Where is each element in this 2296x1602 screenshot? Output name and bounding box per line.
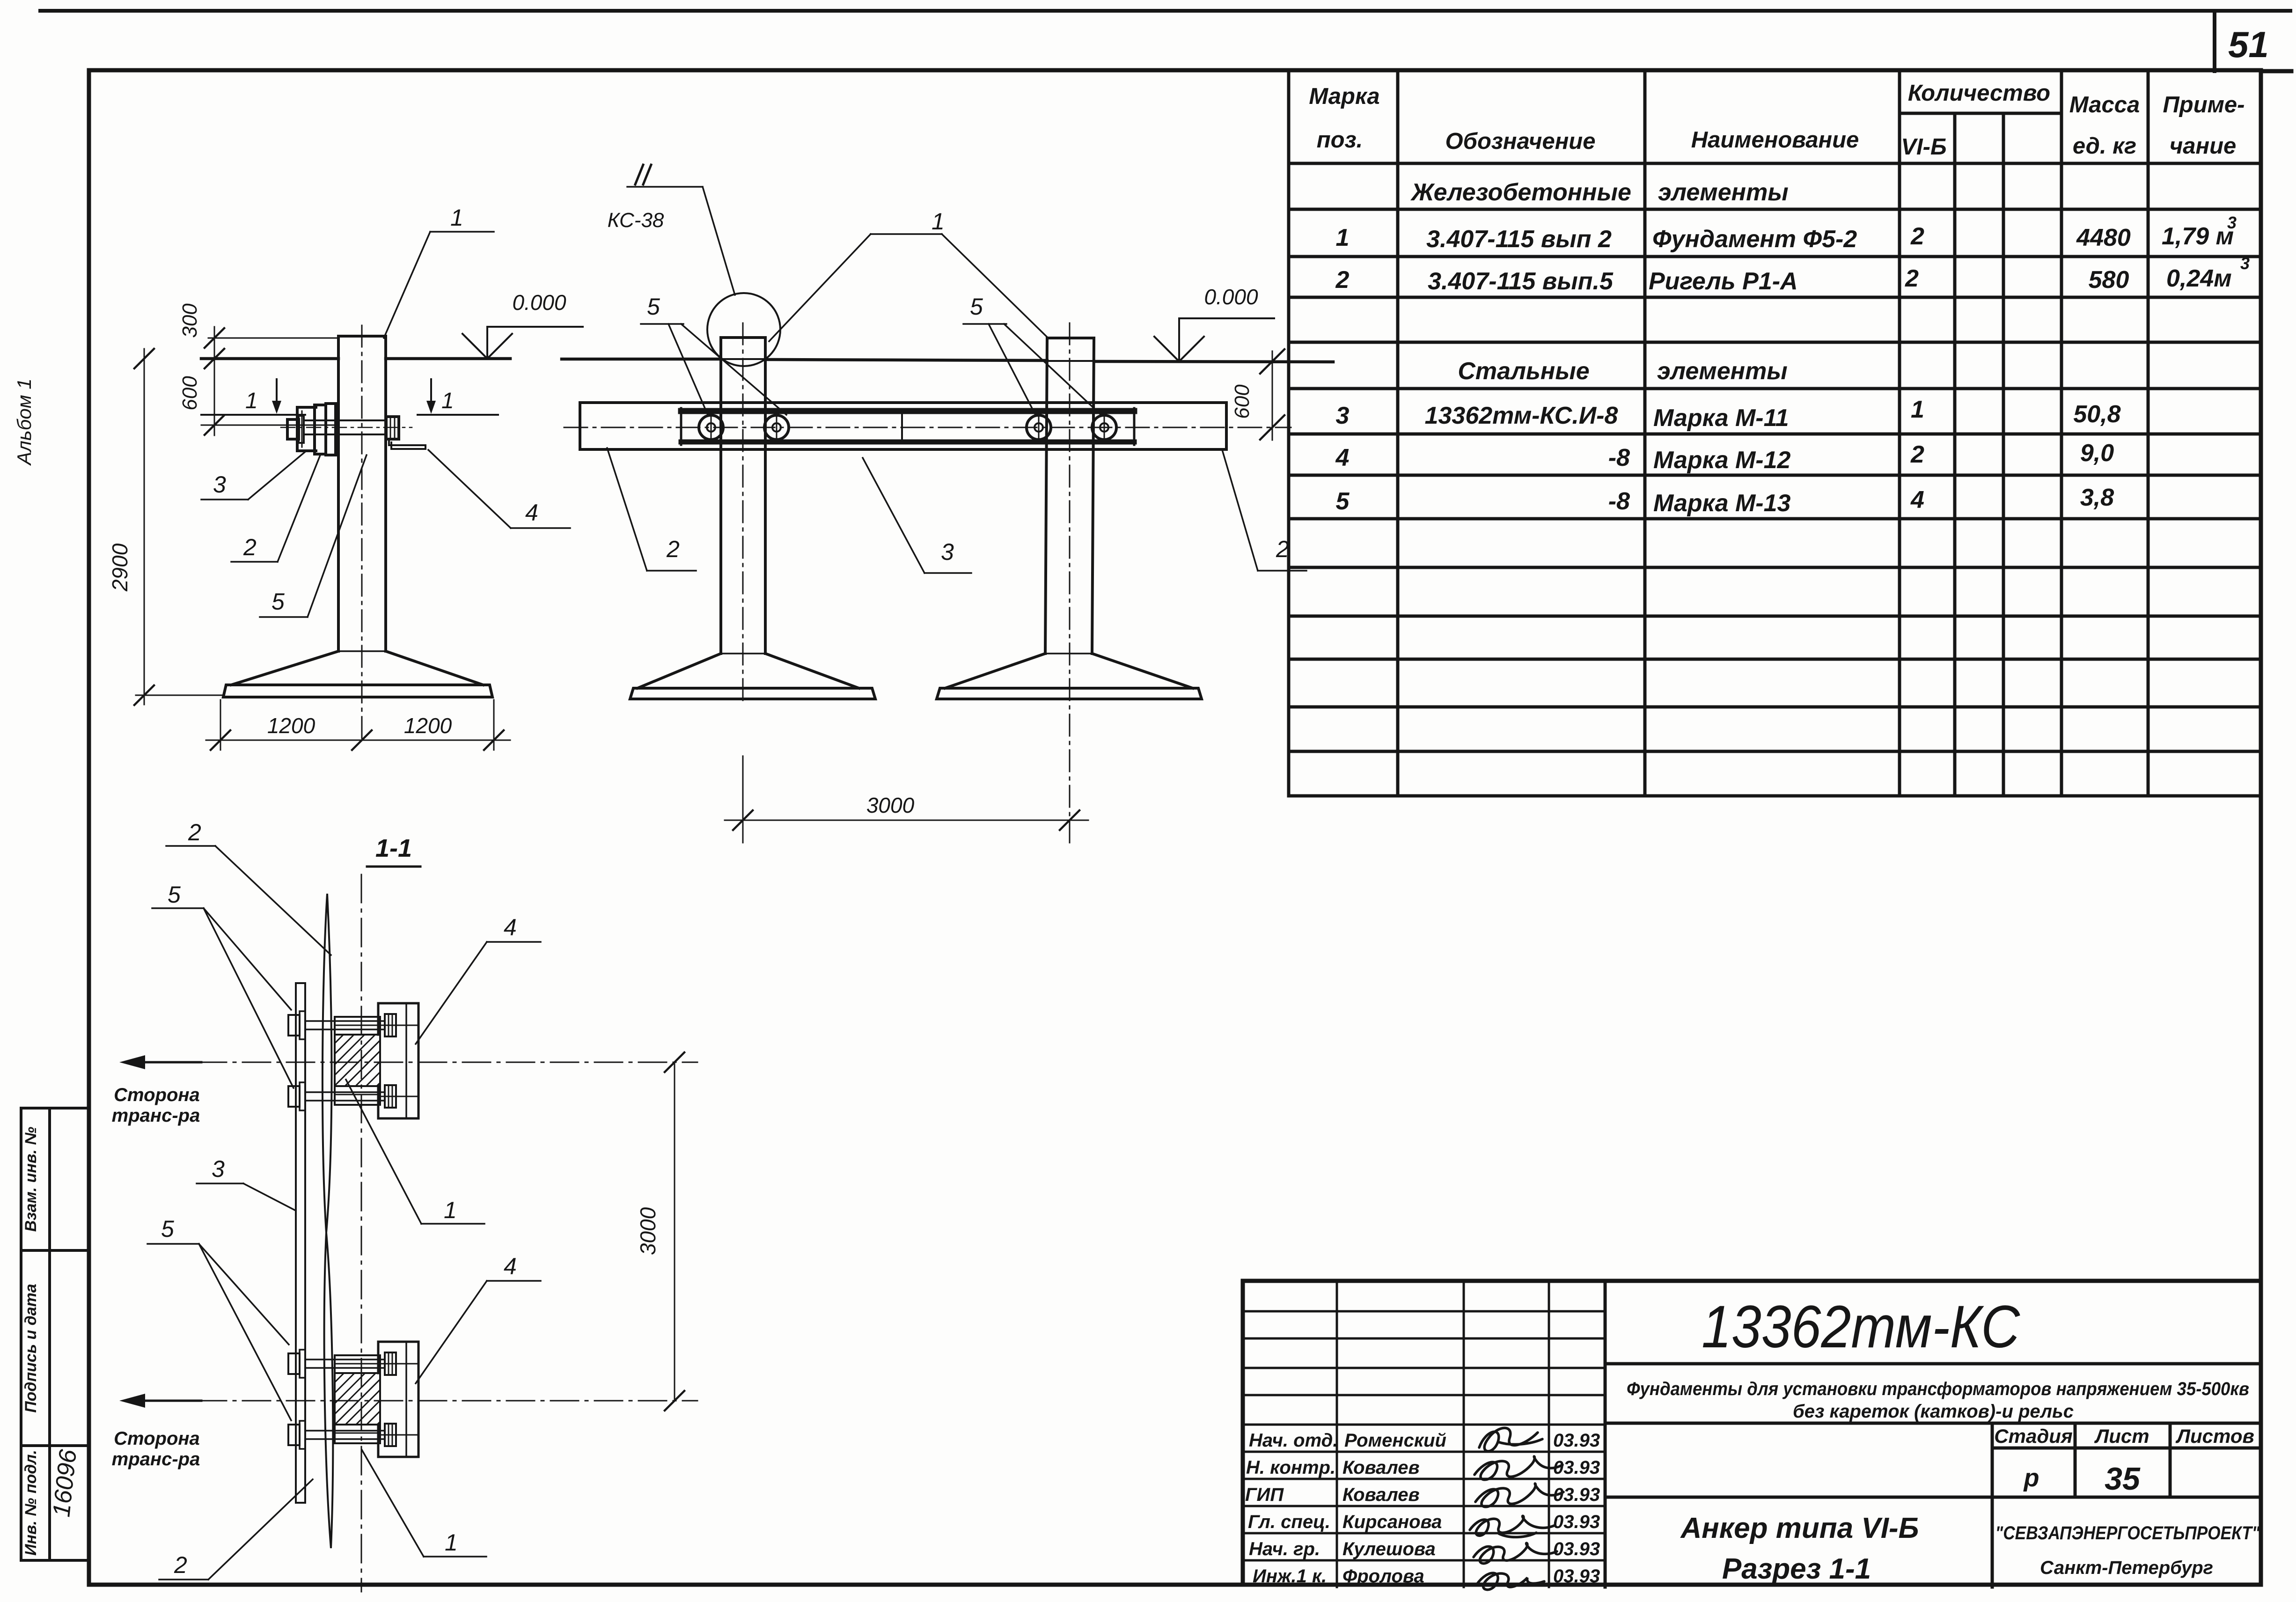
bolt 3 — [1027, 415, 1051, 440]
bolt 2 — [764, 415, 789, 440]
svg-text:ГИП: ГИП — [1245, 1484, 1284, 1505]
svg-text:0,24м: 0,24м — [2166, 265, 2232, 292]
svg-text:Н. контр.: Н. контр. — [1246, 1457, 1335, 1478]
svg-text:580: 580 — [2089, 266, 2129, 294]
svg-text:600: 600 — [1231, 384, 1254, 419]
rigel plate edge (pos2 sliver) — [323, 894, 332, 1233]
svg-text:поз.: поз. — [1317, 127, 1363, 153]
beam (rigel P1-A) outer — [580, 403, 1226, 449]
svg-text:VI-Б: VI-Б — [1901, 134, 1946, 160]
svg-text:Ковалев: Ковалев — [1342, 1457, 1420, 1478]
svg-text:Инв. № подл.: Инв. № подл. — [22, 1450, 40, 1556]
dim line 2900 — [144, 349, 145, 705]
svg-text:2: 2 — [1910, 223, 1924, 250]
svg-text:Инж.1 к.: Инж.1 к. — [1253, 1566, 1327, 1587]
svg-text:600: 600 — [178, 376, 201, 411]
svg-text:2: 2 — [1905, 265, 1919, 292]
bolt nut right — [386, 417, 399, 439]
svg-text:2: 2 — [243, 534, 257, 560]
bolt upper-top — [288, 1015, 300, 1036]
title block left labels — [1245, 1430, 1600, 1587]
column cut top plate lower — [335, 1355, 380, 1373]
svg-text:13362тм-КС.И-8: 13362тм-КС.И-8 — [1425, 402, 1618, 429]
svg-text:4: 4 — [504, 1253, 517, 1279]
svg-text:чание: чание — [2170, 133, 2237, 159]
dim 3000 between columns — [742, 756, 744, 843]
bolt lower-bottom — [288, 1425, 300, 1445]
svg-text:Ригель Р1-А: Ригель Р1-А — [1649, 268, 1798, 295]
svg-text:3.407-115 вып 2: 3.407-115 вып 2 — [1426, 226, 1612, 253]
svg-text:2: 2 — [1335, 266, 1350, 294]
svg-text:р: р — [2023, 1464, 2039, 1492]
bracket M-12 (pos4) upper — [378, 1003, 418, 1118]
svg-text:3: 3 — [2227, 213, 2237, 232]
svg-text:Анкер типа VI-Б: Анкер типа VI-Б — [1680, 1512, 1919, 1544]
sheet top edge line — [40, 9, 2290, 13]
label II — [635, 165, 643, 184]
svg-text:3000: 3000 — [866, 793, 915, 817]
detail circle II — [707, 293, 780, 366]
svg-text:Марка: Марка — [1309, 84, 1379, 109]
svg-text:03.93: 03.93 — [1553, 1430, 1600, 1451]
title block right grid — [1605, 1281, 2261, 1587]
frame top extension to sheet right — [2261, 69, 2291, 73]
svg-text:элементы: элементы — [1657, 358, 1788, 385]
ground line left view — [201, 357, 338, 360]
column cut bottom plate — [335, 1086, 380, 1105]
svg-text:03.93: 03.93 — [1553, 1457, 1600, 1478]
svg-text:35: 35 — [2105, 1461, 2141, 1497]
svg-text:Листов: Листов — [2175, 1425, 2254, 1447]
bolt axis — [281, 427, 412, 428]
svg-text:1: 1 — [245, 389, 258, 413]
svg-text:3.407-115 вып.5: 3.407-115 вып.5 — [1428, 268, 1614, 295]
table row texts — [1335, 179, 2250, 517]
bolt shaft — [304, 419, 386, 421]
svg-text:транс-ра: транс-ра — [112, 1105, 200, 1126]
svg-text:5: 5 — [271, 588, 285, 615]
dim 3000 vertical — [674, 1062, 675, 1401]
svg-text:4: 4 — [1910, 486, 1924, 514]
svg-text:2: 2 — [1910, 441, 1924, 468]
svg-text:1: 1 — [1911, 396, 1924, 423]
angle bracket pos4 — [389, 440, 425, 449]
svg-text:Гл. спец.: Гл. спец. — [1248, 1512, 1330, 1532]
svg-text:Марка М-12: Марка М-12 — [1653, 447, 1791, 474]
svg-text:3: 3 — [1336, 402, 1350, 429]
svg-text:без кареток (катков)-и рельс: без кареток (катков)-и рельс — [1793, 1401, 2074, 1422]
bolt 1 — [699, 413, 1116, 442]
title block left grid — [1243, 1281, 1605, 1587]
svg-text:03.93: 03.93 — [1553, 1539, 1600, 1559]
svg-text:3: 3 — [213, 471, 226, 498]
strip joint line — [901, 409, 903, 442]
table header texts — [1309, 81, 2245, 160]
ground line middle view — [562, 358, 721, 361]
svg-text:3: 3 — [212, 1156, 225, 1182]
svg-text:1: 1 — [450, 205, 463, 231]
right foundation column — [1045, 338, 1094, 654]
svg-text:Подпись и дата: Подпись и дата — [22, 1284, 40, 1413]
column centerlines — [742, 323, 744, 705]
bolt upper-bottom — [288, 1086, 300, 1107]
bolt lower-top — [288, 1353, 300, 1374]
svg-text:03.93: 03.93 — [1553, 1512, 1600, 1532]
svg-text:Масса: Масса — [2069, 92, 2140, 118]
svg-text:Приме-: Приме- — [2163, 92, 2245, 118]
foundation base plate — [223, 685, 492, 697]
svg-text:Стальные: Стальные — [1458, 358, 1589, 385]
svg-text:ед. кг: ед. кг — [2073, 133, 2136, 159]
svg-text:1: 1 — [441, 389, 454, 413]
svg-text:Нач. отд.: Нач. отд. — [1249, 1430, 1338, 1451]
svg-text:Нач. гр.: Нач. гр. — [1249, 1539, 1320, 1559]
description lines — [1627, 1379, 2260, 1585]
dim line 300/600 — [214, 327, 215, 435]
svg-text:4: 4 — [525, 500, 538, 526]
transformer-side axis arrow lower — [125, 1400, 201, 1402]
svg-text:3000: 3000 — [636, 1207, 660, 1255]
svg-text:Сторона: Сторона — [114, 1428, 200, 1449]
column centerline — [361, 325, 363, 741]
svg-text:Альбом 1: Альбом 1 — [13, 378, 35, 466]
svg-text:Марка М-13: Марка М-13 — [1653, 490, 1791, 517]
svg-text:Фундамент Ф5-2: Фундамент Ф5-2 — [1652, 226, 1857, 253]
svg-text:50,8: 50,8 — [2073, 401, 2120, 428]
svg-text:Сторона: Сторона — [114, 1085, 200, 1105]
svg-text:Взам. инв. №: Взам. инв. № — [22, 1127, 40, 1232]
dim line 1200+1200 — [220, 700, 221, 750]
svg-text:1-1: 1-1 — [375, 834, 412, 862]
svg-text:1: 1 — [445, 1529, 458, 1556]
bolt head — [287, 419, 299, 439]
svg-text:Наименование: Наименование — [1691, 127, 1859, 153]
beam centerline — [564, 427, 1291, 428]
svg-text:КС-38: КС-38 — [608, 209, 664, 232]
foundation column F5-2 — [223, 336, 492, 697]
section cut mark 1 left — [201, 414, 305, 416]
svg-text:"СЕВЗАПЭНЕРГОСЕТЬПРОЕКТ": "СЕВЗАПЭНЕРГОСЕТЬПРОЕКТ" — [1995, 1523, 2260, 1543]
elevation mark 0.000 middle view — [1179, 317, 1274, 319]
extension lines for 300/600 dims — [208, 338, 338, 339]
bolted joint: channel bracket — [287, 404, 425, 455]
column cut top plate — [335, 1017, 380, 1035]
svg-text:Кулешова: Кулешова — [1342, 1539, 1436, 1559]
bracket M-12 (pos4) lower — [378, 1342, 418, 1457]
svg-text:03.93: 03.93 — [1553, 1566, 1600, 1587]
text Сторона транс-ра upper — [112, 1085, 200, 1470]
section cut mark 1 right — [418, 414, 498, 416]
svg-text:Железобетонные: Железобетонные — [1410, 179, 1631, 206]
svg-text:Санкт-Петербург: Санкт-Петербург — [2040, 1558, 2213, 1578]
bolt 4 — [1092, 415, 1116, 440]
column cut hatched — [335, 1035, 380, 1086]
column cut hatched lower — [335, 1373, 380, 1425]
signatures — [1470, 1428, 1563, 1589]
column cut bottom plate lower — [335, 1425, 380, 1443]
svg-text:0.000: 0.000 — [1204, 285, 1258, 309]
svg-text:5: 5 — [1336, 488, 1350, 515]
svg-text:Марка М-11: Марка М-11 — [1653, 404, 1789, 432]
svg-text:4: 4 — [504, 914, 517, 941]
svg-text:5: 5 — [647, 294, 660, 320]
svg-text:5: 5 — [168, 882, 181, 908]
steel strip M-11 on beam — [681, 408, 1134, 414]
svg-text:Ковалев: Ковалев — [1342, 1484, 1420, 1505]
vertical centerline — [361, 874, 362, 1592]
page number 51 box divider — [2213, 11, 2216, 71]
svg-text:51: 51 — [2228, 24, 2269, 65]
dim 600 right — [1272, 351, 1273, 440]
svg-text:3: 3 — [941, 539, 954, 565]
svg-text:1: 1 — [1336, 224, 1350, 251]
svg-text:Фролова: Фролова — [1342, 1566, 1424, 1587]
rigel plate edge lower lens — [324, 1233, 333, 1548]
svg-text:элементы: элементы — [1658, 179, 1789, 206]
svg-text:3,8: 3,8 — [2080, 484, 2114, 511]
svg-text:5: 5 — [161, 1216, 174, 1242]
svg-text:4: 4 — [1335, 444, 1350, 471]
elevation mark 0.000 left view — [487, 326, 583, 328]
cap bottom line right column — [1047, 360, 1094, 362]
title block outer — [1243, 1281, 2261, 1585]
svg-text:-8: -8 — [1608, 444, 1630, 471]
svg-text:0.000: 0.000 — [512, 290, 566, 315]
svg-text:Кирсанова: Кирсанова — [1342, 1512, 1442, 1532]
svg-text:3: 3 — [2240, 254, 2250, 273]
svg-text:1200: 1200 — [267, 713, 315, 738]
svg-text:2: 2 — [174, 1552, 187, 1578]
svg-text:2900: 2900 — [108, 543, 132, 592]
svg-text:Обозначение: Обозначение — [1445, 129, 1596, 154]
svg-text:5: 5 — [970, 294, 983, 320]
svg-text:9,0: 9,0 — [2080, 440, 2114, 467]
svg-text:1,79 м: 1,79 м — [2162, 223, 2234, 250]
svg-text:1200: 1200 — [404, 713, 452, 738]
svg-text:2: 2 — [188, 819, 201, 845]
left foundation column — [580, 338, 1226, 699]
svg-text:4480: 4480 — [2076, 224, 2131, 251]
svg-text:Лист: Лист — [2094, 1425, 2149, 1447]
joint plates — [315, 405, 326, 454]
svg-text:13362тм-КС: 13362тм-КС — [1702, 1293, 2020, 1360]
svg-text:Фундаменты для установки транс: Фундаменты для установки трансформаторов… — [1627, 1379, 2249, 1399]
svg-text:Стадия: Стадия — [1994, 1425, 2072, 1447]
svg-text:1: 1 — [932, 208, 945, 235]
steel strip M-11 (pos3) — [295, 983, 297, 1503]
foundation flare — [231, 651, 338, 685]
specification table grid — [1289, 70, 2261, 796]
cap bottom line left column — [721, 358, 765, 360]
left margin stamp boxes — [21, 1108, 89, 1560]
svg-text:Количество: Количество — [1908, 81, 2050, 106]
svg-text:Роменский: Роменский — [1344, 1430, 1446, 1451]
svg-text:300: 300 — [178, 303, 201, 338]
svg-text:2: 2 — [1276, 536, 1289, 562]
transformer-side axis arrow upper — [125, 1061, 201, 1064]
svg-text:транс-ра: транс-ра — [112, 1449, 200, 1470]
svg-text:-8: -8 — [1608, 488, 1630, 515]
svg-text:1: 1 — [444, 1197, 457, 1223]
svg-text:Разрез 1-1: Разрез 1-1 — [1722, 1553, 1871, 1585]
rotated stamp labels — [22, 1127, 40, 1556]
svg-text:2: 2 — [666, 536, 680, 562]
